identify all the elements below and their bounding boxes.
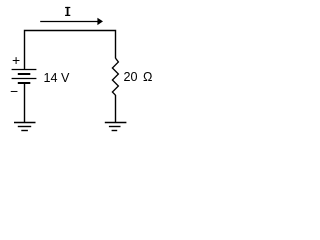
- current label I: [65, 7, 70, 16]
- svg-text:+: +: [12, 52, 20, 68]
- svg-text:−: −: [10, 84, 18, 99]
- svg-text:14 V: 14 V: [44, 71, 71, 85]
- svg-text:Ω: Ω: [143, 70, 152, 84]
- wire resistor to ground: [115, 95, 117, 123]
- ground right line 3: [112, 130, 118, 132]
- battery V1 plate long top: [12, 69, 37, 71]
- resistor R1 zigzag: [112, 58, 118, 95]
- ground left line 1: [14, 122, 36, 124]
- current arrow: [40, 21, 98, 23]
- ground left line 2: [18, 126, 31, 128]
- ground right line 1: [105, 122, 127, 124]
- svg-text:20: 20: [124, 70, 138, 84]
- battery V1 plate short: [18, 73, 31, 75]
- battery V1 plate short bottom: [18, 82, 31, 84]
- wire top loop: [25, 31, 116, 70]
- ground left line 3: [21, 130, 28, 132]
- battery V1 plate long bottom: [12, 78, 37, 80]
- wire battery to ground: [24, 83, 26, 123]
- ground right line 2: [109, 126, 121, 128]
